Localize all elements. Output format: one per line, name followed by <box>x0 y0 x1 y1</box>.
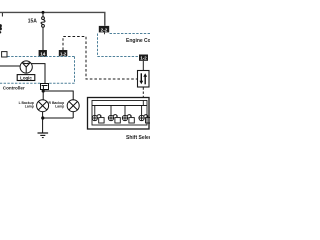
wire lamps to ground <box>42 111 44 133</box>
contact 4 <box>139 106 151 124</box>
wire battery stub <box>1 13 3 17</box>
svg-text:Engine Compartment: Engine Compartment <box>126 38 150 44</box>
wire box 12 to switch <box>142 61 144 71</box>
circuit breaker CB 15A <box>41 14 45 51</box>
svg-text:1-2: 1-2 <box>60 51 67 56</box>
svg-text:Controller: Controller <box>3 85 25 90</box>
svg-text:Lamp: Lamp <box>25 105 34 109</box>
wire motor to connector T <box>31 64 45 86</box>
page ref box 12 right <box>139 55 148 61</box>
svg-text:2-2: 2-2 <box>101 27 108 32</box>
svg-text:15A: 15A <box>28 18 38 24</box>
lamp L backup <box>37 100 49 112</box>
svg-text:1-2: 1-2 <box>140 56 147 61</box>
wire top battery bus <box>0 12 105 25</box>
page ref box 2-2 <box>99 26 109 34</box>
node junction ground <box>41 116 44 119</box>
connector box on boundary <box>2 52 7 57</box>
lamp R backup <box>67 100 79 112</box>
svg-text:Lamp: Lamp <box>55 105 64 109</box>
shift selector switch contacts <box>92 106 151 124</box>
battery B+ terminal (clipped at left edge) <box>0 24 2 33</box>
contact 1 <box>92 106 104 124</box>
logic box <box>17 75 35 81</box>
svg-text:Shift Selector: Shift Selector <box>126 135 150 141</box>
dashed wire switch to shift selector <box>142 87 144 100</box>
ground <box>38 133 49 138</box>
node junction on bus <box>42 11 45 14</box>
motor M1 <box>20 61 32 73</box>
wire to right lamp <box>43 91 73 100</box>
wire T box to lamps <box>42 90 44 101</box>
blue boundary engine compartment <box>98 34 151 57</box>
contact 2 <box>108 106 120 124</box>
node junction lamps feed <box>42 89 45 92</box>
page ref box 14 <box>39 50 47 57</box>
connector T box <box>41 84 49 90</box>
shift selector box <box>88 98 150 130</box>
svg-text:Logic: Logic <box>20 75 32 80</box>
contact 3 <box>122 106 134 124</box>
blue boundary controller <box>0 57 75 84</box>
page ref box 1-2 mid <box>59 50 68 56</box>
svg-text:14: 14 <box>40 52 46 57</box>
switch U2 up/down arrows <box>138 71 150 88</box>
wire motor left feed <box>0 65 20 67</box>
wire right lamp to junction <box>43 111 73 118</box>
dashed signal wire from box 1-2 to shift switch <box>63 37 138 80</box>
